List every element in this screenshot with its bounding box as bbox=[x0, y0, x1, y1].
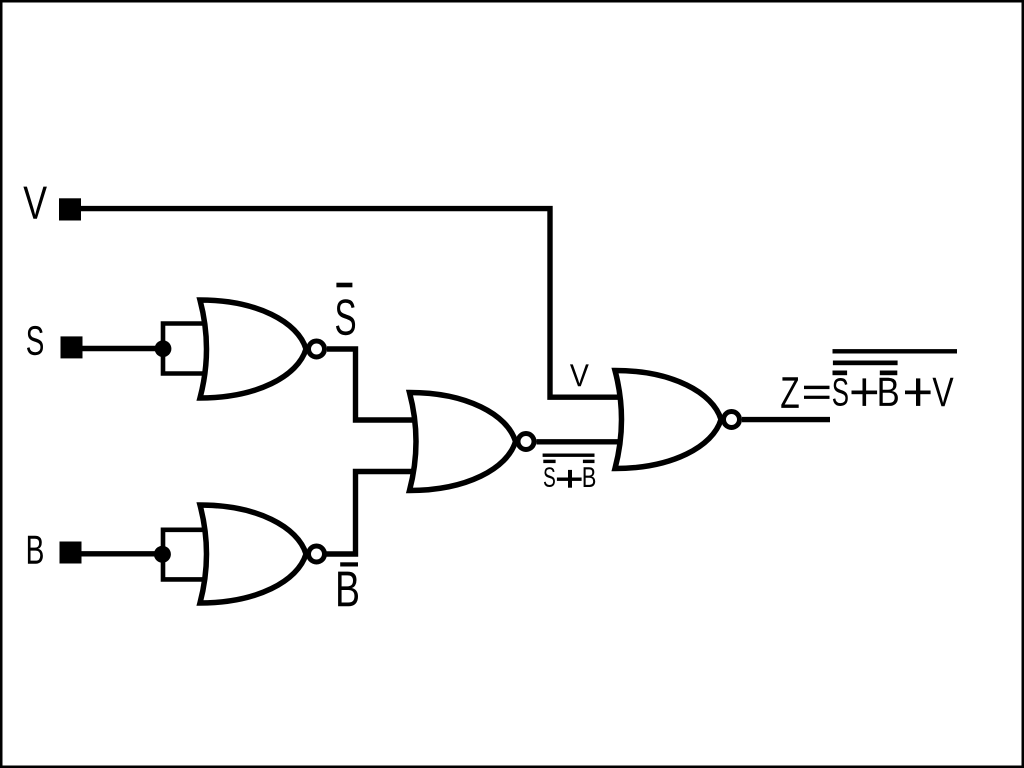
net label Sbar+Bbar long overbar bbox=[543, 454, 595, 457]
formula equals sign bbox=[804, 386, 830, 399]
junction B inputs bbox=[154, 546, 171, 563]
net label Sbar overbar bbox=[336, 283, 352, 288]
input label S bbox=[27, 326, 43, 355]
net label V at U4 input bbox=[570, 364, 589, 386]
formula letter B bbox=[879, 378, 897, 406]
wire V to U4 top input bbox=[81, 209, 626, 398]
junction S inputs bbox=[155, 340, 172, 357]
NOR gate U3 bbox=[410, 393, 535, 491]
formula outermost overbar bbox=[833, 349, 958, 353]
input label B bbox=[28, 536, 43, 564]
net label Sbar+Bbar plus sign bbox=[557, 470, 582, 488]
net label Sbar+Bbar letter B bbox=[584, 467, 596, 487]
wire U2 tied-input bracket bbox=[163, 530, 210, 580]
net label Bbar overbar bbox=[340, 562, 358, 566]
formula letter V bbox=[933, 378, 954, 406]
input terminal V bbox=[59, 198, 81, 220]
net label Sbar+Bbar letter S bbox=[544, 467, 555, 487]
net label Sbar+Bbar S overbar bbox=[543, 460, 555, 463]
net label Sbar+Bbar B overbar bbox=[583, 460, 595, 463]
net label Bbar letter bbox=[338, 572, 358, 607]
formula second plus sign bbox=[905, 378, 931, 406]
NOR gate U4 bbox=[615, 371, 740, 469]
wire B to U2 bbox=[81, 551, 163, 556]
wire U3 output to U4 bottom input bbox=[537, 439, 626, 444]
formula S overbar bbox=[833, 371, 848, 376]
net label Sbar letter bbox=[336, 299, 355, 335]
formula first plus sign bbox=[852, 378, 878, 406]
wire Sbar from U1 to U3 top input bbox=[327, 349, 419, 420]
input terminal S bbox=[61, 336, 83, 358]
formula letter Z bbox=[781, 377, 798, 408]
NOR gate U2 (B inverter) bbox=[200, 505, 325, 603]
NOR gate U1 (S inverter) bbox=[200, 300, 325, 398]
wire Bbar from U2 to U3 bottom input bbox=[327, 472, 417, 555]
formula middle overbar bbox=[833, 361, 898, 366]
input terminal B bbox=[60, 542, 82, 564]
formula B overbar bbox=[880, 371, 898, 376]
wire U1 tied-input bracket bbox=[163, 324, 210, 374]
input label V bbox=[23, 187, 46, 219]
output wire Z bbox=[742, 417, 830, 422]
formula letter S bbox=[833, 378, 848, 406]
wire S to U1 bbox=[82, 346, 163, 351]
